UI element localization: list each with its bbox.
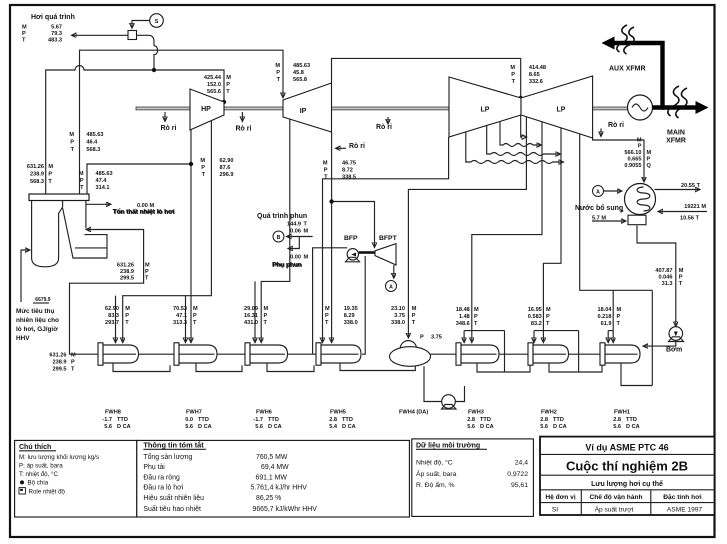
svg-text:Hiệu suất nhiên liệu: Hiệu suất nhiên liệu [143, 493, 204, 502]
svg-text:T: T [71, 367, 75, 373]
svg-text:5.6: 5.6 [613, 424, 621, 430]
svg-text:D CA: D CA [626, 424, 640, 430]
svg-text:0.00 M: 0.00 M [137, 203, 154, 209]
svg-text:T: T [264, 320, 268, 326]
svg-text:Hơi quá trình: Hơi quá trình [31, 14, 75, 21]
svg-text:S: S [155, 19, 159, 25]
svg-text:46.75: 46.75 [342, 161, 356, 167]
svg-text:T: T [474, 321, 478, 327]
svg-text:Thông tin tóm tắt: Thông tin tóm tắt [143, 441, 204, 450]
svg-text:P: P [276, 70, 280, 76]
svg-text:T: T [193, 320, 197, 326]
svg-text:P: áp suất, bara: P: áp suất, bara [19, 462, 63, 469]
svg-text:Rò rỉ: Rò rỉ [376, 124, 392, 131]
svg-text:Phụ tải: Phụ tải [143, 464, 165, 471]
svg-text:Role nhiệt độ: Role nhiệt độ [29, 488, 66, 495]
svg-text:2.8: 2.8 [329, 417, 337, 423]
svg-text:2.8: 2.8 [467, 417, 475, 423]
svg-text:Suất tiêu hao nhiệt: Suất tiêu hao nhiệt [143, 504, 201, 513]
svg-text:M: M [323, 161, 328, 167]
svg-text:TTD: TTD [342, 417, 353, 423]
svg-text:Áp suất, bara: Áp suất, bara [416, 469, 457, 478]
svg-text:FWH3: FWH3 [468, 410, 484, 416]
svg-text:M: M [22, 25, 27, 31]
svg-text:Chú thích: Chú thích [19, 444, 51, 451]
svg-text:T: T [412, 320, 416, 326]
svg-text:BFP: BFP [344, 235, 358, 242]
svg-text:P: P [412, 313, 416, 319]
svg-text:P: P [621, 209, 624, 214]
svg-text:9665,7 kJ/kWhr HHV: 9665,7 kJ/kWhr HHV [253, 506, 318, 513]
svg-text:5.6: 5.6 [255, 424, 263, 430]
svg-text:Bộ chia: Bộ chia [28, 480, 49, 487]
svg-text:338.0: 338.0 [344, 320, 358, 326]
svg-text:414.48: 414.48 [529, 65, 546, 71]
svg-text:M: M [193, 306, 198, 312]
svg-text:Q: Q [647, 163, 652, 169]
svg-text:M: M [617, 307, 622, 313]
svg-text:nhiên liệu cho: nhiên liệu cho [16, 317, 59, 324]
svg-text:0.218: 0.218 [598, 314, 612, 320]
svg-text:P: P [125, 313, 129, 319]
svg-text:P: P [193, 313, 197, 319]
svg-text:Mức tiêu thụ: Mức tiêu thụ [16, 308, 54, 315]
svg-text:Lưu lượng hơi cụ thể: Lưu lượng hơi cụ thể [591, 480, 663, 488]
svg-text:0.046: 0.046 [659, 275, 673, 281]
svg-text:M: lưu lượng khối lượng kg/s: M: lưu lượng khối lượng kg/s [19, 454, 99, 461]
svg-text:M: M [510, 65, 515, 71]
svg-text:M: M [275, 63, 280, 69]
svg-text:Dữ liệu môi trường: Dữ liệu môi trường [416, 443, 480, 450]
svg-text:86,25 %: 86,25 % [256, 495, 281, 502]
svg-text:62.90: 62.90 [220, 158, 234, 164]
svg-text:M: M [200, 158, 205, 164]
svg-text:T: T [277, 77, 281, 83]
svg-text:T: T [202, 172, 206, 178]
svg-text:5.6: 5.6 [467, 424, 475, 430]
svg-text:631.26: 631.26 [27, 164, 44, 170]
svg-text:Hệ đơn vị: Hệ đơn vị [545, 494, 576, 501]
svg-text:425.44: 425.44 [204, 75, 222, 81]
svg-text:407.87: 407.87 [655, 268, 672, 274]
svg-text:485.63: 485.63 [293, 63, 310, 69]
svg-text:T: T [48, 179, 52, 185]
svg-text:29.09: 29.09 [244, 306, 258, 312]
svg-text:2.8: 2.8 [540, 417, 548, 423]
svg-text:568.3: 568.3 [30, 179, 44, 185]
svg-text:P: P [70, 140, 74, 146]
svg-text:238.9: 238.9 [120, 269, 134, 275]
svg-text:565.6: 565.6 [207, 89, 221, 95]
svg-text:D CA: D CA [342, 424, 356, 430]
svg-text:314.1: 314.1 [96, 185, 110, 191]
svg-text:T: nhiệt độ, °C: T: nhiệt độ, °C [19, 471, 58, 478]
svg-text:T: T [304, 222, 308, 228]
svg-text:D CA: D CA [480, 424, 494, 430]
svg-text:TTD: TTD [117, 417, 128, 423]
svg-text:T: T [325, 320, 329, 326]
svg-text:T: T [80, 185, 84, 191]
svg-text:T: T [226, 89, 230, 95]
svg-text:ASME 1997: ASME 1997 [667, 507, 703, 514]
svg-text:565.8: 565.8 [293, 77, 307, 83]
svg-text:152.0: 152.0 [207, 82, 221, 88]
svg-text:Rò rỉ: Rò rỉ [161, 125, 177, 132]
svg-text:TTD: TTD [480, 417, 491, 423]
svg-text:16.31: 16.31 [244, 313, 258, 319]
svg-text:M: M [412, 306, 417, 312]
svg-text:5.67: 5.67 [51, 25, 62, 31]
svg-text:95,61: 95,61 [511, 482, 528, 489]
svg-text:P: P [71, 360, 75, 366]
svg-text:M: M [679, 268, 684, 274]
svg-text:FWH2: FWH2 [541, 410, 557, 416]
svg-text:FWH4 (DA): FWH4 (DA) [399, 410, 428, 416]
svg-text:83.2: 83.2 [531, 321, 542, 327]
svg-text:XFMR: XFMR [666, 138, 686, 145]
svg-text:D CA: D CA [553, 424, 567, 430]
svg-text:P: P [48, 172, 52, 178]
svg-text:P: P [226, 82, 230, 88]
svg-text:8.65: 8.65 [529, 72, 540, 78]
svg-text:47.4: 47.4 [96, 178, 108, 184]
svg-text:-1.7: -1.7 [102, 417, 112, 423]
svg-text:M: M [125, 306, 130, 312]
svg-text:T: T [71, 147, 75, 153]
svg-text:31.3: 31.3 [662, 281, 673, 287]
svg-text:FWH8: FWH8 [105, 410, 121, 416]
svg-text:19.35: 19.35 [344, 306, 358, 312]
svg-text:LP: LP [557, 107, 566, 114]
svg-text:16.95: 16.95 [528, 307, 542, 313]
svg-text:M: M [79, 171, 84, 177]
svg-text:299.5: 299.5 [53, 367, 67, 373]
svg-text:61.9: 61.9 [601, 321, 612, 327]
svg-text:299.5: 299.5 [120, 276, 134, 282]
svg-text:5.7 M: 5.7 M [592, 216, 606, 222]
svg-text:M: M [546, 307, 551, 313]
svg-text:566.10: 566.10 [624, 150, 641, 156]
svg-text:M: M [145, 263, 150, 269]
svg-text:Bơm: Bơm [666, 347, 682, 354]
svg-text:18.04: 18.04 [598, 307, 613, 313]
svg-text:3.75: 3.75 [394, 313, 405, 319]
svg-text:FWH5: FWH5 [330, 410, 346, 416]
svg-text:T: T [22, 38, 26, 44]
svg-text:T: T [617, 321, 621, 327]
svg-text:FWH6: FWH6 [256, 410, 272, 416]
svg-text:238.9: 238.9 [53, 360, 67, 366]
svg-text:0,9722: 0,9722 [507, 471, 528, 478]
svg-text:8.29: 8.29 [344, 313, 355, 319]
svg-text:69,4 MW: 69,4 MW [261, 464, 289, 471]
svg-text:0.06: 0.06 [290, 229, 301, 235]
svg-text:P: P [474, 314, 478, 320]
svg-text:Tổn thất nhiệt lò hơi: Tổn thất nhiệt lò hơi [113, 208, 175, 216]
svg-text:M: M [474, 307, 479, 313]
svg-text:T: T [125, 320, 129, 326]
svg-text:1.48: 1.48 [459, 314, 470, 320]
svg-text:P: P [80, 178, 84, 184]
svg-text:296.9: 296.9 [220, 172, 234, 178]
svg-text:IP: IP [300, 108, 307, 115]
svg-text:FWH1: FWH1 [614, 410, 630, 416]
svg-text:20.55 T: 20.55 T [681, 183, 701, 189]
svg-text:0.665: 0.665 [628, 157, 642, 163]
svg-text:70.53: 70.53 [173, 306, 187, 312]
svg-text:T: T [512, 79, 516, 85]
svg-text:79.3: 79.3 [51, 31, 62, 37]
svg-text:D CA: D CA [198, 424, 212, 430]
svg-text:24,4: 24,4 [515, 460, 528, 467]
svg-text:5.761,4 kJ/hr HHV: 5.761,4 kJ/hr HHV [251, 485, 308, 492]
svg-text:BFPT: BFPT [379, 235, 398, 242]
svg-text:M: M [71, 353, 76, 359]
svg-text:238.9: 238.9 [30, 172, 44, 178]
svg-text:AUX XFMR: AUX XFMR [609, 66, 646, 73]
svg-text:568.3: 568.3 [86, 147, 100, 153]
svg-text:A: A [389, 284, 393, 290]
svg-text:D CA: D CA [117, 424, 131, 430]
svg-text:-1.7: -1.7 [253, 417, 263, 423]
svg-text:5.6: 5.6 [185, 424, 193, 430]
svg-text:485.63: 485.63 [86, 132, 103, 138]
svg-text:332.6: 332.6 [529, 79, 543, 85]
svg-text:A: A [596, 189, 600, 195]
svg-text:Ví dụ ASME PTC 46: Ví dụ ASME PTC 46 [585, 443, 668, 453]
svg-text:8.72: 8.72 [342, 168, 353, 174]
svg-text:TTD: TTD [553, 417, 564, 423]
svg-text:TTD: TTD [626, 417, 637, 423]
svg-text:5.6: 5.6 [540, 424, 548, 430]
svg-text:MAIN: MAIN [667, 130, 685, 137]
svg-text:Rò rỉ: Rò rỉ [236, 126, 252, 133]
svg-text:338.5: 338.5 [342, 175, 356, 181]
svg-text:T: T [546, 321, 550, 327]
svg-text:691,1 MW: 691,1 MW [256, 474, 288, 481]
svg-text:M: M [69, 132, 74, 138]
svg-text:P: P [201, 165, 205, 171]
svg-text:83.3: 83.3 [108, 313, 119, 319]
svg-text:Chế độ vận hành: Chế độ vận hành [589, 493, 642, 501]
svg-text:P: P [420, 335, 424, 341]
svg-text:M: M [647, 150, 652, 156]
svg-text:5.6: 5.6 [104, 424, 112, 430]
svg-text:47.1: 47.1 [176, 313, 187, 319]
svg-text:LP: LP [481, 107, 490, 114]
svg-text:T: T [324, 175, 328, 181]
svg-text:431.0: 431.0 [244, 320, 258, 326]
svg-text:P: P [145, 269, 149, 275]
svg-text:P: P [324, 168, 328, 174]
svg-text:P: P [679, 275, 683, 281]
svg-text:348.6: 348.6 [456, 321, 470, 327]
svg-text:19221 M: 19221 M [684, 204, 706, 210]
svg-text:5.4: 5.4 [329, 424, 338, 430]
svg-text:293.7: 293.7 [105, 320, 119, 326]
svg-text:Rò rỉ: Rò rỉ [608, 122, 624, 129]
svg-text:10.56 T: 10.56 T [680, 216, 700, 222]
svg-text:313.3: 313.3 [173, 320, 187, 326]
svg-text:631.26: 631.26 [117, 263, 134, 269]
svg-text:R. Độ ẩm, %: R. Độ ẩm, % [416, 481, 455, 489]
svg-text:0.0: 0.0 [185, 417, 193, 423]
svg-text:TTD: TTD [198, 417, 209, 423]
svg-text:Áp suất trượt: Áp suất trượt [595, 505, 634, 514]
svg-text:M: M [304, 255, 309, 261]
svg-text:2.8: 2.8 [613, 417, 621, 423]
svg-text:3.75: 3.75 [431, 335, 442, 341]
svg-text:0.583: 0.583 [528, 314, 542, 320]
svg-text:Đầu ra ròng: Đầu ra ròng [143, 472, 180, 481]
svg-text:338.0: 338.0 [391, 320, 405, 326]
svg-text:D CA: D CA [268, 424, 282, 430]
svg-text:Rò rỉ: Rò rỉ [349, 143, 365, 150]
svg-text:T: T [145, 276, 149, 282]
svg-text:lò hơi, GJ/giờ: lò hơi, GJ/giờ [16, 326, 58, 333]
svg-text:Đặc tính hơi: Đặc tính hơi [663, 494, 702, 501]
svg-text:485.63: 485.63 [96, 171, 113, 177]
svg-text:Đầu ra lò hơi: Đầu ra lò hơi [143, 483, 183, 492]
svg-text:M: M [226, 75, 231, 81]
svg-text:SI: SI [552, 507, 558, 514]
svg-text:P: P [638, 144, 642, 150]
svg-text:M: M [325, 306, 330, 312]
svg-text:Nước bổ sung: Nước bổ sung [575, 204, 623, 212]
svg-text:P: P [22, 31, 26, 37]
svg-text:Phụ phun: Phụ phun [273, 262, 303, 269]
svg-text:T: T [679, 281, 683, 287]
svg-text:M: M [48, 164, 53, 170]
svg-text:Cuộc thí nghiệm 2B: Cuộc thí nghiệm 2B [566, 459, 688, 474]
svg-text:45.8: 45.8 [293, 70, 304, 76]
svg-text:Tổng sản lượng: Tổng sản lượng [143, 453, 192, 461]
svg-text:P: P [511, 72, 515, 78]
svg-text:Nhiệt độ, °C: Nhiệt độ, °C [416, 459, 453, 467]
svg-text:TTD: TTD [268, 417, 279, 423]
svg-text:B: B [277, 235, 281, 241]
svg-text:P: P [325, 313, 329, 319]
svg-text:483.3: 483.3 [48, 38, 62, 44]
svg-text:6679.9: 6679.9 [35, 297, 51, 303]
svg-text:M: M [264, 306, 269, 312]
svg-text:P: P [617, 314, 621, 320]
svg-text:46.4: 46.4 [86, 140, 98, 146]
svg-text:HHV: HHV [16, 335, 30, 342]
svg-text:62.90: 62.90 [105, 306, 119, 312]
svg-text:P: P [647, 157, 651, 163]
svg-text:144.9: 144.9 [287, 222, 301, 228]
svg-text:P: P [546, 314, 550, 320]
svg-text:Quá trình phun: Quá trình phun [257, 213, 307, 220]
svg-text:760,5 MW: 760,5 MW [256, 454, 288, 461]
svg-text:0.00: 0.00 [290, 255, 301, 261]
svg-text:87.6: 87.6 [220, 165, 231, 171]
svg-text:18.48: 18.48 [456, 307, 470, 313]
svg-text:0.9055: 0.9055 [624, 163, 641, 169]
svg-text:M: M [304, 229, 309, 235]
svg-text:23.10: 23.10 [391, 306, 405, 312]
svg-text:631.26: 631.26 [49, 353, 66, 359]
svg-text:P: P [264, 313, 268, 319]
svg-text:FWH7: FWH7 [186, 410, 202, 416]
svg-text:HP: HP [201, 106, 211, 113]
